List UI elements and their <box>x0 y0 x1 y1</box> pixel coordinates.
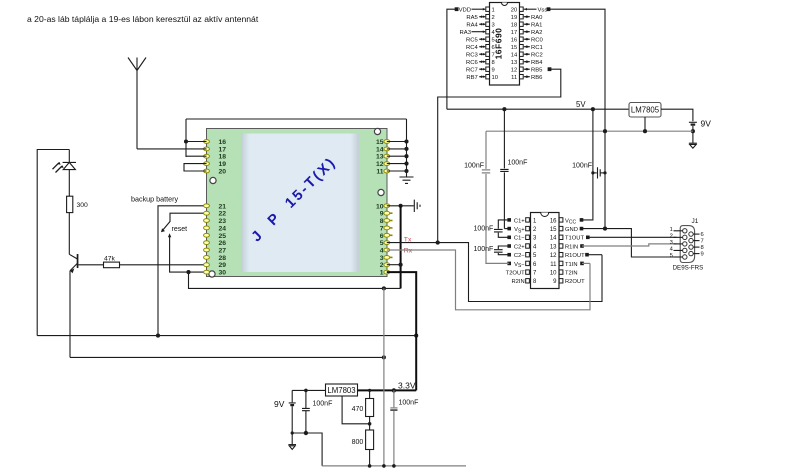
svg-text:C2−: C2− <box>514 253 525 259</box>
IC U3 MAX232 body <box>531 213 560 289</box>
svg-text:LM7803: LM7803 <box>327 386 355 395</box>
svg-text:13: 13 <box>550 244 557 250</box>
wire Tx (pin5) run <box>387 243 602 302</box>
svg-text:9V: 9V <box>274 399 285 409</box>
svg-text:14: 14 <box>511 53 518 59</box>
node B1 lower <box>291 431 294 434</box>
svg-text:11: 11 <box>511 75 517 81</box>
node RB5 <box>548 67 552 71</box>
svg-text:22: 22 <box>219 211 227 218</box>
node T1IN pin11 <box>580 262 584 266</box>
svg-text:6: 6 <box>380 233 384 240</box>
svg-text:12: 12 <box>511 68 517 74</box>
svg-text:100nF: 100nF <box>399 400 419 407</box>
wire pin10 stub <box>387 205 414 207</box>
svg-text:backup battery: backup battery <box>131 195 179 204</box>
svg-text:4: 4 <box>380 248 384 255</box>
connector J1 pins <box>674 230 683 232</box>
svg-text:20: 20 <box>511 8 517 14</box>
wire Q1 emitter down <box>69 271 71 358</box>
svg-text:C1−: C1− <box>514 236 525 242</box>
capacitor C7 (C2) <box>494 250 503 253</box>
svg-text:DE9S-FRS: DE9S-FRS <box>673 265 704 272</box>
svg-text:12: 12 <box>376 161 384 168</box>
svg-text:T1IN: T1IN <box>565 262 578 268</box>
node emitter rail junction <box>382 355 386 359</box>
svg-text:15: 15 <box>511 45 517 51</box>
wire left rail top <box>37 150 69 336</box>
wire pin10-pin2 vertical <box>400 206 402 289</box>
node pin2 <box>399 263 403 267</box>
wire C1+ to C1 <box>498 220 509 229</box>
svg-text:9: 9 <box>701 252 704 258</box>
svg-text:100nF: 100nF <box>508 160 528 167</box>
svg-text:19: 19 <box>511 15 517 21</box>
svg-text:100nF: 100nF <box>473 225 493 232</box>
ground under B1 <box>288 444 296 446</box>
svg-text:Rx: Rx <box>404 248 413 255</box>
node GND chain join <box>603 227 607 231</box>
node rail-3.3V junction <box>414 334 418 338</box>
svg-text:T2IN: T2IN <box>565 271 578 277</box>
svg-text:1: 1 <box>492 8 495 14</box>
node GND pin15 <box>580 227 584 231</box>
svg-text:RA5: RA5 <box>466 15 478 21</box>
node divider mid <box>368 422 372 426</box>
node pin10 <box>399 204 403 208</box>
svg-text:18: 18 <box>219 154 227 161</box>
node VCC tap <box>591 107 595 111</box>
svg-text:R1IN: R1IN <box>565 244 578 250</box>
svg-text:21: 21 <box>219 203 227 210</box>
node Tx-RB5 junction <box>436 241 440 245</box>
svg-text:16: 16 <box>219 139 227 146</box>
svg-text:25: 25 <box>219 233 227 240</box>
wire pin18 stub <box>186 155 207 157</box>
resistor R4 470 <box>369 390 371 398</box>
svg-text:17: 17 <box>219 146 227 153</box>
svg-text:11: 11 <box>376 169 383 176</box>
svg-text:14: 14 <box>550 236 557 242</box>
node R1IN pin13 <box>580 244 584 248</box>
svg-text:RA4: RA4 <box>466 23 478 29</box>
wire pin21 backup battery <box>158 206 207 336</box>
wire bottom rail <box>322 465 466 467</box>
svg-text:T1OUT: T1OUT <box>565 236 584 242</box>
svg-text:RC1: RC1 <box>531 45 543 51</box>
svg-text:6: 6 <box>492 45 495 51</box>
wire left drop x186 <box>185 119 187 157</box>
wire C2 to C2- <box>498 253 509 255</box>
wire Q1 base to R3 <box>78 264 103 266</box>
node cap C8 bottom <box>304 431 308 435</box>
svg-text:26: 26 <box>219 240 227 247</box>
capacitor C3 100nF <box>482 170 490 173</box>
svg-text:VDD: VDD <box>459 8 471 14</box>
wire C2+ to C2 <box>498 246 509 249</box>
regulator U4 LM7805 <box>629 103 661 118</box>
wire ground line y131 <box>486 130 693 132</box>
svg-text:reset: reset <box>172 226 188 233</box>
wire Rx (pin4) run <box>387 250 590 310</box>
wire VS- vertical <box>485 131 487 264</box>
ground right bus <box>400 177 414 183</box>
svg-text:47k: 47k <box>104 255 116 262</box>
node 3.3V cap tap <box>392 388 396 392</box>
module mounting holes <box>210 177 216 183</box>
svg-text:RB6: RB6 <box>531 75 543 81</box>
svg-text:3.3V: 3.3V <box>398 380 416 390</box>
svg-text:30: 30 <box>219 270 227 277</box>
node VS+ tap <box>502 107 506 111</box>
svg-text:RC6: RC6 <box>466 60 479 66</box>
IC U1 pins and labels <box>486 7 490 11</box>
wire rail y335 (backup supply) <box>37 335 416 337</box>
battery B1 9V <box>289 390 296 403</box>
wire LM7805 out to 9V <box>661 109 693 121</box>
svg-text:RC0: RC0 <box>531 38 544 44</box>
svg-text:8: 8 <box>492 60 495 66</box>
node rail cap <box>392 464 396 468</box>
svg-text:20: 20 <box>219 169 227 176</box>
LED D1 (photodiode) <box>63 150 76 197</box>
node rail 470/800 <box>368 464 372 468</box>
svg-text:100nF: 100nF <box>464 163 484 170</box>
svg-text:RC7: RC7 <box>466 68 478 74</box>
wire RB5 to Tx <box>438 69 561 242</box>
wire 9V to LM7803 in <box>292 389 325 391</box>
svg-text:12: 12 <box>550 253 557 259</box>
svg-text:3: 3 <box>492 23 495 29</box>
svg-text:5: 5 <box>492 38 495 44</box>
wire pin30 drop to bottom run <box>189 272 401 288</box>
svg-text:5: 5 <box>380 240 384 247</box>
svg-text:470: 470 <box>352 406 364 413</box>
wire pin16 stub <box>186 141 207 143</box>
svg-text:23: 23 <box>219 218 227 225</box>
resistor R5 800 <box>369 424 371 430</box>
module pin pads <box>204 140 210 144</box>
svg-text:16: 16 <box>511 38 517 44</box>
regulator U5 LM7803 <box>326 384 358 396</box>
wire top loop over module <box>186 118 407 120</box>
svg-text:15: 15 <box>376 139 384 146</box>
wire VDD to 5V rail <box>447 9 457 109</box>
node VDD <box>455 7 459 11</box>
svg-text:RC2: RC2 <box>531 53 543 59</box>
svg-text:3: 3 <box>380 255 384 262</box>
wire R1OUT right <box>587 254 602 256</box>
wire GND to DB9 pin5 <box>582 229 677 257</box>
reset switch SW1 <box>162 222 170 232</box>
svg-text:RA1: RA1 <box>531 23 542 29</box>
svg-text:100nF: 100nF <box>473 246 493 253</box>
svg-text:RA2: RA2 <box>531 30 542 36</box>
svg-text:7: 7 <box>492 53 495 59</box>
module center strip <box>241 134 359 273</box>
node bottom run to gnd drop <box>382 286 386 290</box>
svg-text:T2OUT: T2OUT <box>506 271 525 277</box>
node R1OUT pin12 <box>585 253 589 257</box>
capacitor C5 100nF sideways <box>591 171 594 174</box>
svg-text:13: 13 <box>511 60 517 66</box>
wire antenna to node <box>137 148 186 150</box>
wire B1 lower branch <box>292 433 322 466</box>
svg-text:28: 28 <box>219 255 227 262</box>
wire pin1 to 3.3V drop <box>387 272 416 390</box>
wire R3 to pin29 <box>120 264 207 266</box>
module U2 JP15-T(X) body <box>207 129 388 277</box>
svg-text:GND: GND <box>565 227 578 233</box>
connector J1 DE9S-FRS body <box>680 226 694 263</box>
wire pins15-11 to gnd bus <box>387 141 407 143</box>
svg-text:1: 1 <box>380 270 384 277</box>
wire VCC vertical <box>582 109 593 220</box>
svg-text:RB4: RB4 <box>531 60 543 66</box>
node backup battery rail <box>156 334 160 338</box>
transistor Q1 <box>69 254 77 270</box>
svg-text:2: 2 <box>670 234 673 240</box>
wire pin2 stub <box>387 264 401 266</box>
svg-text:100nF: 100nF <box>572 163 592 170</box>
ground sideways at pin10 <box>414 200 420 212</box>
svg-text:11: 11 <box>550 262 557 268</box>
svg-text:10: 10 <box>550 271 557 277</box>
node Vss <box>547 7 551 11</box>
svg-text:18: 18 <box>511 23 517 29</box>
nodes MAX232 left pins <box>507 218 511 222</box>
wire LM7803 out 3.3V <box>358 389 417 391</box>
svg-text:24: 24 <box>219 225 227 232</box>
node 9V gnd line <box>691 129 695 133</box>
capacitor C4 100nF <box>500 169 508 171</box>
node gnd chain x605 <box>603 129 607 133</box>
svg-text:RC3: RC3 <box>466 53 479 59</box>
svg-text:RC4: RC4 <box>466 45 479 51</box>
svg-text:RA3: RA3 <box>460 30 472 36</box>
wire T1OUT to DB9 pin2 <box>588 236 677 238</box>
svg-text:16: 16 <box>550 218 557 224</box>
battery B2 9V <box>689 121 697 123</box>
node VCC pin16 <box>580 218 584 222</box>
svg-text:Vss: Vss <box>538 8 548 14</box>
ground under 9V right <box>689 142 697 144</box>
wire C1 to C1- <box>498 233 509 238</box>
capacitor C9 100nF output <box>393 390 395 407</box>
svg-text:2: 2 <box>492 15 495 21</box>
svg-text:C2+: C2+ <box>514 244 525 250</box>
wire pin17 stub <box>186 148 207 150</box>
node T1OUT pin14 <box>586 236 590 240</box>
svg-text:9: 9 <box>492 68 495 74</box>
svg-text:9: 9 <box>380 211 384 218</box>
capacitor C6 (C1) <box>494 229 503 232</box>
wire T1IN right <box>582 262 590 264</box>
svg-text:2: 2 <box>380 262 384 269</box>
node rail gnd drop <box>382 464 386 468</box>
wire emitter rail y357 <box>70 356 384 358</box>
node LM7805 gnd <box>643 129 647 133</box>
node cap C1 top <box>304 389 308 393</box>
wire VS+ to pin2 <box>504 228 509 230</box>
svg-text:J1: J1 <box>692 218 699 225</box>
capacitor C8 100nF input <box>302 390 310 433</box>
svg-text:27: 27 <box>219 248 227 255</box>
svg-text:1: 1 <box>670 227 673 233</box>
svg-text:10: 10 <box>492 75 498 81</box>
svg-text:RB5: RB5 <box>531 68 543 74</box>
svg-text:15: 15 <box>550 227 557 233</box>
svg-text:C1+: C1+ <box>514 218 525 224</box>
svg-text:29: 29 <box>219 262 227 269</box>
svg-text:LM7805: LM7805 <box>631 106 660 115</box>
svg-text:17: 17 <box>511 30 517 36</box>
wire pin19-20 loop <box>184 164 207 171</box>
svg-text:6: 6 <box>701 232 704 238</box>
wire 5V rail <box>447 108 629 110</box>
wire Vss to gnd chain <box>549 9 606 228</box>
svg-text:5: 5 <box>670 253 673 259</box>
svg-text:3: 3 <box>670 240 673 246</box>
node pin30 junction <box>186 270 190 274</box>
wire reset to pin30 <box>170 236 207 273</box>
svg-text:7: 7 <box>701 239 704 245</box>
svg-text:RC5: RC5 <box>466 38 479 44</box>
antenna ANT1 <box>128 58 146 149</box>
node 470 top <box>368 389 371 392</box>
wire VS+ vertical <box>503 109 505 228</box>
svg-text:16F690: 16F690 <box>494 28 504 60</box>
svg-text:7: 7 <box>380 225 384 232</box>
svg-text:R1OUT: R1OUT <box>565 253 585 259</box>
svg-text:a 20-as láb táplálja a 19-es l: a 20-as láb táplálja a 19-es lábon keres… <box>27 14 259 24</box>
IC U3 pins and labels <box>526 218 530 222</box>
svg-text:R2IN: R2IN <box>511 279 524 285</box>
wire gnd drop x384 <box>383 288 385 466</box>
IC U1 16F690 body <box>490 3 520 86</box>
svg-text:19: 19 <box>219 161 227 168</box>
svg-text:10: 10 <box>376 203 384 210</box>
svg-text:R2OUT: R2OUT <box>565 279 585 285</box>
wire pin22 to reset <box>170 213 207 222</box>
svg-text:RA0: RA0 <box>531 15 543 21</box>
svg-text:14: 14 <box>376 146 384 153</box>
wire VS- to pin6 <box>486 262 509 265</box>
wire divider to LM7803 gnd <box>342 396 370 424</box>
svg-text:800: 800 <box>352 439 364 446</box>
svg-text:9V: 9V <box>701 119 712 129</box>
svg-text:13: 13 <box>376 154 384 161</box>
node pin16 <box>184 139 188 143</box>
wire LM7805 gnd stub <box>644 117 646 131</box>
svg-text:8: 8 <box>701 245 704 251</box>
wire R1IN to DB9 pin3 <box>582 244 677 246</box>
svg-text:100nF: 100nF <box>313 400 333 407</box>
wire R300 to Q1 <box>68 213 70 255</box>
svg-text:5V: 5V <box>576 100 586 109</box>
resistor 300 (R2) <box>67 196 73 212</box>
svg-text:RB7: RB7 <box>466 75 477 81</box>
resistor 47k (R3) <box>104 262 120 268</box>
svg-text:8: 8 <box>380 218 384 225</box>
svg-text:300: 300 <box>77 202 89 209</box>
